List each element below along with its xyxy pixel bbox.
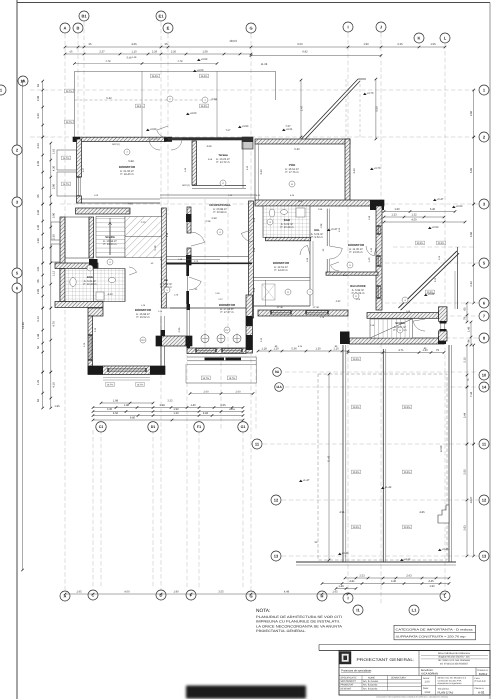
svg-text:2.63: 2.63 [406, 575, 412, 578]
svg-text:2.47: 2.47 [218, 298, 223, 301]
svg-text:5.46: 5.46 [290, 194, 295, 197]
dormitor-right bottom wall [326, 272, 378, 275]
svg-text:1.18: 1.18 [320, 316, 325, 319]
baie fixtures [70, 278, 76, 287]
title block top strip [319, 644, 490, 646]
svg-text:+0.47: +0.47 [437, 198, 444, 201]
svg-text:30.0%: 30.0% [353, 406, 360, 409]
svg-text:4.70: 4.70 [53, 321, 56, 327]
svg-text:1.85: 1.85 [54, 405, 60, 408]
svg-text:36.0%: 36.0% [137, 105, 144, 108]
svg-text:7.67: 7.67 [226, 129, 231, 132]
west bay window [57, 150, 77, 170]
svg-text:2.58: 2.58 [211, 98, 217, 101]
terasa parapet top [168, 137, 242, 140]
svg-text:4.85: 4.85 [419, 511, 425, 514]
svg-text:+1.47: +1.47 [303, 479, 310, 482]
svg-text:1.05: 1.05 [356, 298, 361, 301]
svg-text:P: 30.98 m: P: 30.98 m [214, 211, 228, 214]
svg-text:3.90: 3.90 [53, 212, 56, 218]
svg-text:P: 14.60 m: P: 14.60 m [275, 269, 289, 272]
svg-text:16.7%: 16.7% [63, 183, 70, 186]
svg-text:36.0%: 36.0% [201, 75, 208, 78]
svg-text:P: 10.43 m: P: 10.43 m [84, 283, 98, 286]
svg-text:63: 63 [37, 399, 40, 402]
svg-text:3.43: 3.43 [246, 165, 249, 170]
svg-text:4.05: 4.05 [178, 327, 181, 332]
svg-text:4.65: 4.65 [131, 43, 137, 46]
svg-text:3.30: 3.30 [37, 113, 40, 119]
svg-text:PLANURILE DE ARHITECTURA SE VO: PLANURILE DE ARHITECTURA SE VOR CITI [256, 615, 342, 619]
east boundary line upper terrace [456, 247, 458, 309]
svg-text:4.91: 4.91 [339, 511, 345, 514]
svg-text:3.32: 3.32 [167, 400, 173, 403]
grid bubbles right [479, 85, 489, 95]
svg-text:B: B [77, 25, 80, 30]
wall under ocupational [167, 262, 253, 264]
svg-text:4.49: 4.49 [284, 591, 290, 594]
svg-text:3.68: 3.68 [208, 158, 213, 161]
svg-text:1.18: 1.18 [261, 348, 267, 351]
svg-text:A: A [64, 25, 67, 30]
svg-text:4.05: 4.05 [37, 160, 40, 166]
svg-text:4.83: 4.83 [203, 412, 209, 415]
svg-text:NUME: NUME [368, 677, 375, 680]
scara right wall [162, 208, 167, 308]
roof outline [75, 70, 276, 72]
svg-text:Scara:: Scara: [423, 677, 430, 680]
page border top [17, 2, 490, 4]
SE stairs treads [370, 319, 413, 338]
post at G corner [242, 137, 253, 149]
svg-text:1.40: 1.40 [368, 257, 371, 262]
pod right wall [345, 139, 350, 203]
svg-text:65: 65 [464, 307, 467, 310]
svg-text:3.40: 3.40 [391, 580, 397, 583]
svg-text:13: 13 [274, 553, 279, 558]
svg-text:1.48: 1.48 [132, 56, 137, 59]
svg-text:65: 65 [70, 51, 73, 54]
svg-text:1.47: 1.47 [301, 105, 304, 111]
svg-text:1:50: 1:50 [425, 681, 431, 684]
svg-text:SEMNATURA: SEMNATURA [391, 677, 406, 680]
svg-text:PROIECTAT: PROIECTAT [341, 684, 354, 687]
svg-text:DORMITOR: DORMITOR [135, 308, 152, 312]
svg-text:4.50: 4.50 [113, 412, 119, 415]
svg-text:1.46: 1.46 [184, 167, 187, 172]
svg-text:4.00: 4.00 [124, 591, 130, 594]
entry porch [187, 356, 256, 358]
svg-text:Arh. B. Gavrila: Arh. B. Gavrila [363, 680, 379, 683]
svg-text:2.48: 2.48 [215, 292, 220, 295]
svg-text:1.05: 1.05 [338, 227, 341, 232]
svg-text:12: 12 [482, 497, 487, 502]
svg-text:P: 17.76 m: P: 17.76 m [286, 171, 300, 174]
svg-text:3.90: 3.90 [53, 183, 56, 189]
small ref circles [124, 149, 130, 155]
svg-text:35: 35 [165, 43, 168, 46]
svg-text:P: 18.40 m: P: 18.40 m [121, 173, 135, 176]
svg-text:5.85: 5.85 [470, 167, 473, 173]
svg-text:3.30: 3.30 [37, 209, 40, 215]
svg-text:5.13: 5.13 [37, 316, 40, 322]
svg-text:Beneficiari:: Beneficiari: [421, 669, 434, 672]
svg-text:4.50: 4.50 [411, 219, 417, 222]
dims terrace bottom [345, 577, 449, 579]
svg-text:BAIE: BAIE [284, 219, 291, 222]
east wall post with window [439, 307, 448, 322]
svg-text:E1: E1 [159, 13, 165, 18]
svg-text:SCARA: SCARA [105, 236, 115, 239]
terrace bottom-right step [438, 505, 449, 523]
svg-text:1.20: 1.20 [315, 348, 321, 351]
svg-text:Acest proiect este proprietate: Acest proiect este proprietatea Birou In… [376, 696, 449, 699]
svg-text:63: 63 [37, 84, 40, 87]
scan artifact black bar [186, 686, 306, 699]
svg-text:3.06: 3.06 [37, 95, 40, 101]
svg-text:60: 60 [195, 288, 198, 291]
svg-text:1.98: 1.98 [320, 223, 323, 228]
svg-text:1.23: 1.23 [391, 214, 397, 217]
svg-text:I: I [347, 595, 348, 600]
svg-text:6.82: 6.82 [302, 51, 308, 54]
svg-text:DORMITOR: DORMITOR [219, 303, 236, 307]
svg-text:DORMITOR: DORMITOR [119, 165, 136, 169]
top dimension chains [65, 46, 445, 48]
svg-text:OCUPATIONAL: OCUPATIONAL [209, 203, 231, 207]
slope labels [351, 357, 360, 361]
west facade mid [60, 217, 65, 306]
svg-text:1.25: 1.25 [83, 342, 86, 347]
svg-text:1.40: 1.40 [370, 247, 373, 252]
svg-text:30.0%: 30.0% [404, 526, 411, 529]
grid bubbles mid-left of terrace [273, 368, 282, 377]
baie right (tiled) [263, 206, 310, 237]
svg-text:+3.70: +3.70 [374, 167, 381, 170]
svg-text:5.18: 5.18 [154, 245, 157, 250]
page border right [489, 3, 491, 699]
roof diagonal top right [300, 79, 358, 141]
svg-text:3.68: 3.68 [207, 145, 212, 148]
svg-text:36.0%: 36.0% [152, 75, 159, 78]
svg-text:1.98: 1.98 [159, 404, 165, 407]
svg-text:65: 65 [37, 194, 40, 197]
grid bubbles top [60, 23, 70, 33]
logo [340, 652, 352, 665]
svg-text:SEF PROIECT: SEF PROIECT [341, 680, 357, 683]
svg-text:16.7%: 16.7% [203, 377, 210, 380]
svg-text:HOL: HOL [314, 229, 320, 232]
pod bottom wall [255, 200, 384, 206]
dormitor SW (left bottom) [88, 308, 103, 316]
svg-text:J: J [380, 24, 382, 29]
svg-text:16.7%: 16.7% [63, 157, 70, 160]
svg-text:14: 14 [482, 384, 487, 389]
dims right wing interior [384, 211, 455, 213]
svg-text:2.30: 2.30 [260, 337, 263, 342]
svg-text:14.46: 14.46 [22, 322, 25, 329]
svg-text:B1: B1 [81, 13, 87, 18]
svg-text:Terasa: Terasa [218, 153, 228, 157]
svg-text:+3.40: +3.40 [342, 552, 349, 555]
svg-text:C1: C1 [99, 425, 104, 429]
svg-text:CATEGORIA DE IMPORTANTA - D re: CATEGORIA DE IMPORTANTA - D redusa [396, 629, 474, 632]
right wall of mid dormitor [246, 295, 253, 353]
svg-text:30.0%: 30.0% [438, 242, 445, 245]
svg-text:1.98: 1.98 [113, 400, 119, 403]
svg-text:1.99: 1.99 [306, 257, 309, 262]
dormitor1 bottom wall [81, 202, 160, 204]
svg-text:+4.13: +4.13 [404, 558, 411, 561]
svg-text:4.32: 4.32 [336, 300, 341, 303]
svg-text:9.63: 9.63 [127, 203, 133, 206]
svg-text:P: 17.27 m: P: 17.27 m [221, 311, 235, 314]
svg-text:DORMITOR: DORMITOR [348, 243, 365, 247]
svg-text:30.0%: 30.0% [353, 358, 360, 361]
svg-text:Constructie locuinta P+E,: Constructie locuinta P+E, [438, 679, 462, 682]
svg-text:SUPRAFATA CONSTRUITA = 250.76: SUPRAFATA CONSTRUITA = 250.76 mp [396, 636, 467, 639]
dims above bottom circles [101, 402, 153, 404]
svg-text:P.T.+D.D.E.: P.T.+D.D.E. [475, 680, 487, 683]
svg-text:4.71: 4.71 [398, 349, 404, 352]
svg-text:1.90: 1.90 [173, 591, 179, 594]
svg-text:5.00: 5.00 [297, 43, 303, 46]
svg-text:11.28: 11.28 [261, 63, 268, 66]
dressing closet [262, 284, 275, 300]
svg-text:3.60: 3.60 [470, 231, 473, 237]
svg-text:ATY81: ATY81 [277, 306, 284, 309]
svg-text:Adresa: Iasi, Str. Musatini nr: Adresa: Iasi, Str. Musatini nr.5 [438, 677, 467, 680]
svg-text:2.55: 2.55 [464, 469, 467, 475]
svg-text:1.12: 1.12 [53, 270, 56, 276]
svg-text:90: 90 [322, 248, 325, 251]
svg-text:1.22: 1.22 [411, 214, 417, 217]
svg-text:50: 50 [37, 346, 40, 349]
svg-text:Arh. B.Gavrila: Arh. B.Gavrila [363, 684, 378, 687]
ocupational left wall [187, 207, 191, 233]
svg-text:35: 35 [89, 43, 92, 46]
svg-text:ATY82: ATY82 [313, 306, 320, 309]
scara left wall [89, 217, 94, 258]
svg-text:1.65: 1.65 [332, 591, 338, 594]
svg-text:Faza:: Faza: [475, 677, 481, 680]
svg-text:PROIECTANTUL GENERAL.: PROIECTANTUL GENERAL. [256, 629, 306, 633]
svg-text:+1.42: +1.42 [385, 486, 392, 489]
svg-text:2.63: 2.63 [464, 525, 467, 531]
svg-text:Arh. B.Gavrila: Arh. B.Gavrila [363, 688, 378, 691]
grid bubbles bottom row C1-G1 [96, 422, 106, 432]
door arcs [149, 139, 160, 150]
svg-text:79: 79 [436, 349, 439, 352]
wall between scara and baie [55, 263, 98, 269]
svg-text:16.7%: 16.7% [229, 377, 236, 380]
svg-text:IMPREUNA CU PLANURILE DE INSTA: IMPREUNA CU PLANURILE DE INSTALATII. [256, 620, 340, 624]
svg-text:1.01: 1.01 [37, 266, 40, 272]
svg-text:5.88: 5.88 [128, 160, 134, 163]
svg-text:Proiectant de specialitate:: Proiectant de specialitate: [341, 670, 372, 673]
svg-text:5.40: 5.40 [294, 148, 300, 151]
svg-text:16.7%: 16.7% [137, 384, 144, 387]
svg-text:13.27: 13.27 [470, 496, 473, 503]
svg-text:SPECIFICATIE: SPECIFICATIE [341, 677, 358, 680]
svg-text:K: K [418, 35, 421, 40]
svg-text:+3.45: +3.45 [442, 548, 449, 551]
corridor lines [160, 194, 256, 196]
svg-text:30.0%: 30.0% [417, 242, 424, 245]
svg-text:3.02: 3.02 [434, 277, 437, 282]
svg-text:+3.70: +3.70 [367, 92, 374, 95]
rooms divider below mid dormitor [253, 277, 310, 279]
left dimension chains [22, 81, 24, 570]
svg-text:3.30: 3.30 [107, 408, 113, 411]
west wall upper [77, 139, 82, 177]
svg-text:+4.31: +4.31 [286, 128, 293, 131]
dormitor SW bottom wall [88, 366, 165, 375]
svg-text:P: 13.56 m: P: 13.56 m [350, 251, 364, 254]
svg-text:5.36: 5.36 [291, 348, 297, 351]
svg-text:+0.62: +0.62 [428, 293, 435, 296]
svg-text:LA ORICE NECONCORDANTA SE VA A: LA ORICE NECONCORDANTA SE VA ANUNTA [256, 624, 343, 628]
svg-text:G: G [249, 25, 252, 30]
svg-text:2.78: 2.78 [178, 60, 183, 63]
svg-text:30.7%: 30.7% [66, 90, 73, 93]
dormitor S-mid walls [170, 307, 246, 309]
svg-text:2.37: 2.37 [99, 51, 105, 54]
svg-text:4.81: 4.81 [349, 580, 355, 583]
svg-text:D1: D1 [151, 425, 156, 429]
south wall middle dormitor [187, 348, 246, 354]
svg-text:1.46: 1.46 [141, 304, 146, 307]
svg-text:+0.63: +0.63 [456, 205, 463, 208]
pod left line [254, 144, 256, 200]
categoria box [394, 625, 476, 640]
grid axis lines [64, 34, 66, 590]
baie left wing [60, 269, 65, 302]
svg-text:DESENAT: DESENAT [341, 688, 352, 691]
svg-text:7.44: 7.44 [470, 391, 473, 397]
ext stair SE block bottom wall [350, 338, 445, 344]
bottom row dims [65, 593, 445, 595]
right dimension chain [473, 90, 475, 137]
scara second flight [125, 217, 162, 258]
svg-text:1.48: 1.48 [37, 333, 40, 339]
svg-text:2.65: 2.65 [220, 404, 226, 407]
scara block top wall [76, 208, 131, 214]
svg-text:18,53: 18,53 [229, 39, 237, 43]
svg-text:9.85: 9.85 [130, 417, 136, 420]
ext stair SE block top wall [367, 313, 444, 319]
north wing top wall [73, 137, 166, 141]
baie bottom wall [55, 302, 103, 308]
page border left [16, 0, 18, 699]
svg-text:30.7%: 30.7% [66, 121, 73, 124]
title block main table [339, 651, 490, 696]
svg-text:3.55: 3.55 [218, 591, 224, 594]
pod top wall [255, 139, 350, 144]
svg-text:3/2012: 3/2012 [479, 672, 488, 676]
svg-text:+45+: +45+ [229, 408, 236, 411]
svg-text:5.48: 5.48 [127, 57, 132, 60]
svg-text:5.40: 5.40 [430, 208, 436, 211]
svg-text:SCARA: SCARA [395, 322, 405, 325]
svg-text:PROIECTANT GENERAL:: PROIECTANT GENERAL: [357, 657, 415, 662]
svg-text:2.98: 2.98 [318, 208, 323, 211]
svg-text:12: 12 [274, 497, 279, 502]
svg-text:+0.63: +0.63 [432, 226, 439, 229]
svg-text:I: I [347, 24, 348, 29]
mini table [339, 675, 490, 677]
terrace dashed rect [318, 374, 447, 560]
svg-text:1.90: 1.90 [429, 585, 435, 588]
svg-text:POD: POD [289, 163, 296, 167]
svg-text:1.80: 1.80 [124, 404, 130, 407]
svg-text:2.85: 2.85 [37, 288, 40, 294]
svg-text:2.30: 2.30 [94, 327, 97, 332]
svg-text:MPC(2): MPC(2) [182, 184, 190, 187]
grid bubbles bottom [60, 591, 70, 601]
svg-text:P: 13.72 m: P: 13.72 m [217, 161, 231, 164]
svg-text:2.30: 2.30 [470, 281, 473, 287]
svg-text:9A: 9A [275, 370, 280, 374]
svg-text:12.80: 12.80 [440, 445, 443, 452]
svg-text:79: 79 [464, 317, 467, 320]
svg-text:2.26: 2.26 [152, 51, 158, 54]
svg-text:+0.47: +0.47 [331, 228, 338, 231]
svg-text:3.24: 3.24 [37, 143, 40, 149]
svg-text:30.0%: 30.0% [404, 471, 411, 474]
grid bubbles left [18, 76, 28, 86]
svg-text:4.10: 4.10 [53, 382, 56, 388]
svg-text:DORMITOR: DORMITOR [273, 261, 290, 265]
svg-text:P: 10.28 m: P: 10.28 m [281, 226, 295, 229]
hall room (bai) mid [166, 265, 187, 309]
svg-text:3.60: 3.60 [470, 110, 473, 116]
svg-text:1.20: 1.20 [141, 221, 146, 224]
bai/dormitor mid west wall [186, 304, 188, 348]
svg-text:94: 94 [468, 339, 471, 342]
dashed box around diagonal [345, 79, 347, 139]
svg-text:4.45: 4.45 [428, 580, 434, 583]
svg-text:1.40: 1.40 [190, 404, 196, 407]
svg-text:1.20: 1.20 [273, 348, 279, 351]
svg-text:L1: L1 [412, 607, 417, 612]
svg-text:5.43: 5.43 [256, 194, 261, 197]
svg-text:PLAN ETAJ: PLAN ETAJ [438, 690, 454, 694]
svg-text:30.0%: 30.0% [353, 526, 360, 529]
row 2 [339, 667, 490, 669]
svg-text:5.42: 5.42 [106, 97, 112, 100]
svg-text:1.20: 1.20 [174, 294, 179, 297]
svg-text:5.36: 5.36 [298, 345, 303, 348]
svg-text:NOTA:: NOTA: [256, 608, 270, 614]
svg-text:10: 10 [482, 372, 487, 377]
svg-text:+3.93: +3.93 [242, 125, 249, 128]
svg-text:2.60: 2.60 [203, 390, 209, 393]
bucatarie divider [309, 241, 311, 306]
svg-text:2.60: 2.60 [235, 390, 241, 393]
svg-text:1.55: 1.55 [430, 43, 436, 46]
svg-text:66: 66 [37, 279, 40, 282]
svg-text:3.43: 3.43 [353, 168, 356, 174]
terrace bottom line [296, 561, 456, 563]
svg-text:2.53: 2.53 [359, 575, 365, 578]
svg-text:1.10: 1.10 [131, 51, 137, 54]
svg-text:11A: 11A [276, 385, 282, 389]
svg-text:4.47: 4.47 [82, 167, 85, 172]
east wall of interior (x376) [376, 206, 382, 310]
svg-text:+4.00: +4.00 [197, 69, 204, 72]
svg-text:1.10: 1.10 [53, 148, 56, 154]
